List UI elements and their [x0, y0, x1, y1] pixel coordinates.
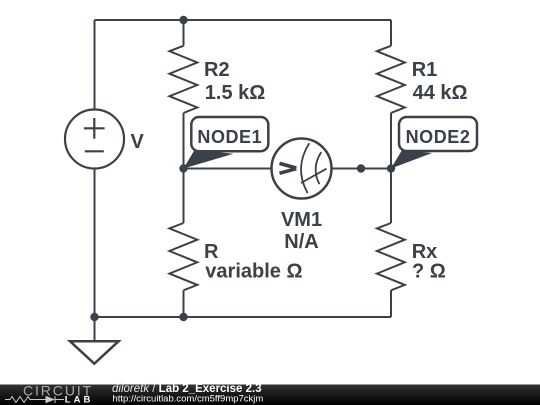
svg-text:NODE2: NODE2 — [406, 127, 471, 147]
svg-text:VM1: VM1 — [281, 209, 322, 231]
svg-text:R2: R2 — [204, 59, 230, 81]
svg-text:N/A: N/A — [284, 231, 318, 253]
svg-text:NODE1: NODE1 — [197, 127, 262, 147]
svg-text:? Ω: ? Ω — [412, 261, 446, 283]
svg-text:1.5 kΩ: 1.5 kΩ — [205, 82, 266, 104]
svg-text:LAB: LAB — [65, 395, 94, 405]
svg-text:R1: R1 — [412, 59, 438, 81]
svg-text:http://circuitlab.com/cm5ff9mp: http://circuitlab.com/cm5ff9mp7ckjm — [113, 394, 264, 405]
svg-text:44 kΩ: 44 kΩ — [413, 82, 468, 104]
svg-text:V: V — [131, 131, 145, 153]
svg-text:variable Ω: variable Ω — [205, 261, 302, 283]
